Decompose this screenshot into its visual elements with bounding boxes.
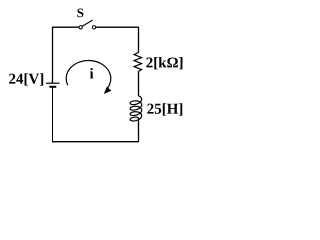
- current loop arrowhead: [104, 87, 112, 94]
- wire top-right segment (switch to top-right corner): [96, 26, 139, 28]
- resistor 2[kOhm] zigzag: [134, 53, 142, 72]
- switch S: right contact: [92, 26, 95, 29]
- battery V1: short negative plate: [49, 86, 56, 88]
- wire right middle (resistor to inductor): [138, 71, 140, 96]
- label 25[H]: [147, 103, 182, 115]
- wire left upper (top-left corner down to battery + plate): [52, 27, 54, 83]
- switch S: blade (open): [82, 20, 92, 26]
- wire bottom: [52, 141, 139, 143]
- wire top-left segment (from left corner to switch): [53, 26, 80, 28]
- label S: [77, 8, 83, 17]
- label i: [90, 68, 94, 78]
- inductor 25[H] coil: [130, 96, 142, 121]
- current loop arrow arc: [66, 61, 111, 89]
- wire right lower (inductor to bottom-right corner): [138, 118, 140, 142]
- label 24[V]: [9, 73, 43, 85]
- label 2[kOhm]: [146, 57, 182, 69]
- wire right upper (corner down to resistor): [138, 27, 140, 53]
- wire left lower (battery - plate down to bottom-left corner): [52, 88, 54, 143]
- battery V1: long positive plate: [46, 82, 60, 84]
- switch S: left contact: [79, 26, 82, 29]
